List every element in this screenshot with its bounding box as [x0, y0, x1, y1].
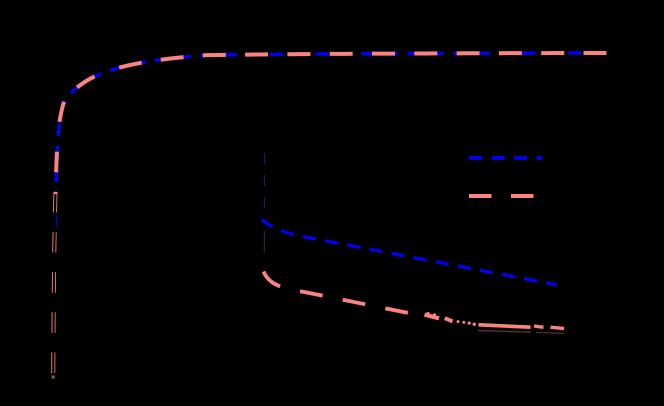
legend pink dashed sample: [469, 194, 534, 198]
faint dark-red underline 2: [536, 332, 565, 333]
pink lower curve lump A: [425, 315, 440, 319]
pink dashed curve U knee segment (on top): [58, 74, 101, 132]
dot at bottom tip of curve U: [52, 376, 55, 379]
pink dots: [457, 320, 460, 323]
pink lower curve lump B: [445, 318, 453, 321]
blue dashed curve U (upper rate curve, under pink): [55, 53, 607, 231]
blue dashed mid curve: [262, 220, 557, 285]
faint dark-blue dashed vertical at x=264 (occluded start of blue mid curve): [264, 153, 266, 218]
faint dark-red underline 1: [478, 331, 531, 333]
faint dark-maroon vertical at x=264 (occluded start of pink lower curve): [263, 231, 265, 253]
black occluder over steep left segment of curve U: [53, 194, 55, 379]
legend blue dashed sample: [469, 156, 542, 160]
pink mark C: [534, 326, 544, 327]
pink dense bar: [479, 325, 531, 327]
pink dash D: [551, 327, 565, 328]
pink dashed lower curve (dashed section): [264, 272, 409, 313]
pink dashed curve U steep segment (on top): [53, 132, 58, 379]
pink dashed curve U flat segment (on top): [101, 53, 607, 74]
